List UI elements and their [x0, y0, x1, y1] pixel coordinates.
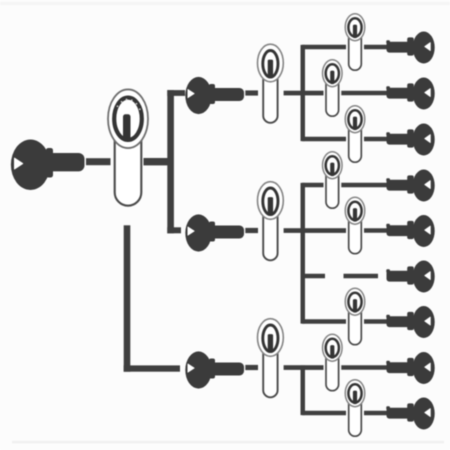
wire: row 7 left [302, 319, 346, 324]
row 2 key [386, 78, 434, 110]
faint bottom smudge [12, 441, 444, 444]
wire: row 6 left dash [302, 274, 325, 279]
wire: level-3 vertical branch A [301, 45, 306, 141]
wire: row 2 right [341, 91, 387, 96]
wire: level-3 vertical branch C [301, 365, 306, 415]
faint top smudge [0, 2, 450, 5]
wire: master key to master cylinder [86, 158, 111, 165]
cylinder C [258, 319, 284, 398]
wire: row 4 left [302, 183, 324, 188]
row 5 key [386, 215, 434, 247]
row 8 key [386, 352, 434, 384]
row 3 cylinder [345, 106, 365, 163]
wire: row 7 right [364, 319, 388, 324]
wire: elbow to sub-key A [167, 90, 185, 96]
master key [11, 140, 85, 190]
wire: row 9 right [364, 411, 388, 416]
row 6 key [386, 261, 434, 293]
row 9 cylinder [345, 380, 365, 437]
wire: cylinder A to row-2 cylinder [284, 91, 324, 96]
row 9 key [386, 398, 434, 430]
row 1 key [386, 32, 434, 64]
row 2 cylinder [323, 60, 343, 116]
wire: master cylinder right stub [144, 158, 169, 165]
sub-key B [185, 214, 244, 251]
cylinder B [258, 182, 284, 261]
wire: dash key B to cylinder B [245, 228, 258, 233]
wire: dash key C to cylinder C [245, 365, 258, 370]
wire: level-1 vertical V1 [167, 90, 174, 233]
wire: row 1 right [364, 45, 388, 50]
wire: elbow to sub-key B [167, 227, 181, 233]
wire: row 5 right [364, 228, 388, 233]
row 8 cylinder [323, 334, 343, 391]
wire: row 1 left [302, 45, 346, 50]
sub-key A [185, 77, 244, 114]
wire: level-3 vertical branch B [301, 183, 306, 324]
wire: row 9 left [302, 411, 346, 416]
row 4 key [386, 170, 434, 202]
master cylinder [108, 89, 148, 205]
wire: row 8 right [341, 365, 387, 370]
wire: elbow to sub-key C [124, 365, 180, 371]
row 3 key [386, 124, 434, 156]
wire: dash key A to cylinder A [245, 90, 258, 95]
wire: level-1 vertical V2 [124, 225, 131, 371]
sub-key C [185, 351, 244, 388]
row 5 cylinder [345, 197, 365, 254]
wire: row 3 left [302, 137, 346, 142]
row 7 key [386, 306, 434, 338]
wire: row 6 right dash [344, 274, 379, 279]
cylinder A [258, 44, 284, 123]
wire: row 4 right [341, 183, 387, 188]
wire: cylinder B to row-5 cylinder [284, 228, 346, 233]
row 4 cylinder [323, 152, 343, 209]
row 1 cylinder [345, 14, 365, 70]
wire: cylinder C to row-8 cylinder [284, 365, 324, 370]
row 7 cylinder [345, 288, 365, 345]
wire: row 3 right [364, 137, 388, 142]
